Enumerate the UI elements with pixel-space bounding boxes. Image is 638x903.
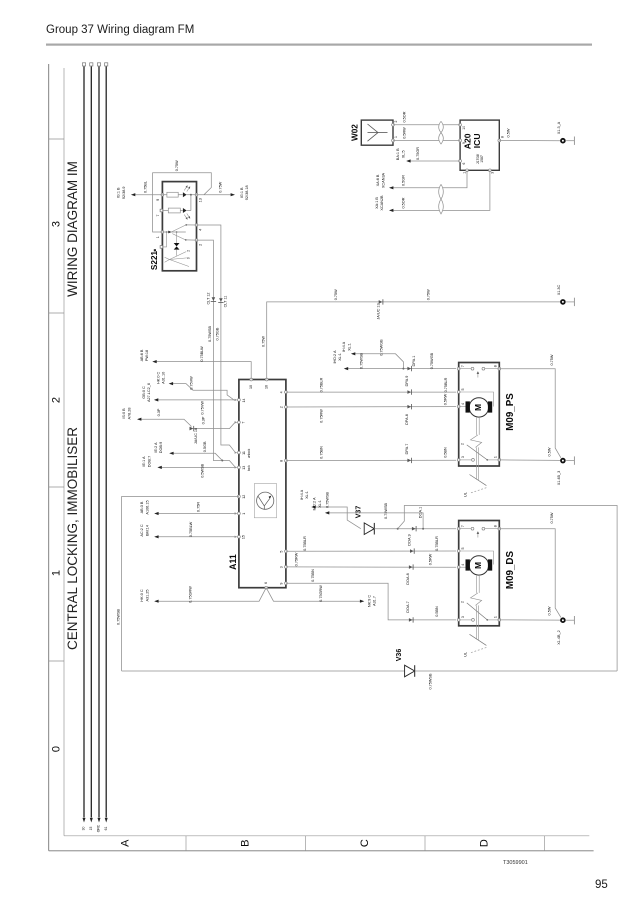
svg-text:0.75BLR: 0.75BLR — [303, 536, 307, 551]
wire S221 pin2 down CLT12 — [197, 240, 235, 467]
S221 pin terminal lower — [160, 246, 163, 249]
svg-text:9: 9 — [156, 199, 160, 201]
A11 pin 13 lock — [238, 466, 241, 469]
svg-text:16: 16 — [265, 385, 269, 389]
wire BA:1B XL:5 to A20 pin6 — [407, 160, 460, 162]
wire W02 pin2 to A20 pin10 — [393, 124, 460, 126]
wire A11 pin4 to M09_PS pin5 via DPA.9 — [286, 391, 456, 393]
svg-text:0.75W: 0.75W — [261, 336, 265, 347]
M09_PS pin 4 — [457, 405, 460, 408]
wire A11 pin1 from AB:3B A106.15 — [155, 513, 236, 515]
bus rail ORC — [98, 66, 100, 817]
svg-text:95: 95 — [595, 879, 608, 891]
wire IHD:2A XL:1 to DPA.1 — [345, 368, 456, 370]
svg-text:8: 8 — [493, 525, 497, 527]
svg-text:DPA.7: DPA.7 — [405, 444, 409, 455]
svg-text:lock: lock — [247, 465, 251, 471]
svg-text:M: M — [473, 562, 483, 569]
M09_PS motor wires — [459, 406, 466, 408]
W02 pin 1 — [392, 139, 395, 142]
svg-text:0.5W: 0.5W — [507, 128, 511, 137]
svg-text:0.5OR: 0.5OR — [403, 111, 407, 122]
frame outer left line — [48, 64, 50, 851]
svg-text:0.3P: 0.3P — [157, 408, 161, 416]
M09_PS linkage below box — [475, 447, 477, 479]
svg-text:1: 1 — [51, 570, 63, 576]
svg-text:2: 2 — [199, 244, 203, 246]
wire V36 to loop corner — [415, 670, 617, 672]
S221 key diode symbol — [176, 231, 178, 233]
svg-text:XL:1: XL:1 — [305, 491, 309, 499]
svg-text:0.75WSB: 0.75WSB — [384, 503, 388, 520]
svg-text:0.5GR: 0.5GR — [402, 175, 406, 186]
wire A11 pin6 split to HK:0C A31.25 — [155, 588, 266, 602]
svg-text:0.5RW: 0.5RW — [403, 127, 407, 139]
svg-text:3: 3 — [461, 616, 465, 618]
svg-text:1: 1 — [462, 172, 466, 174]
M09_PS pin 3 — [457, 459, 460, 462]
svg-text:XL:5: XL:5 — [401, 150, 405, 158]
svg-text:C: C — [359, 839, 371, 847]
A11 pin 16 top — [265, 378, 268, 381]
M09_PS pin 1 — [498, 459, 501, 462]
svg-text:3: 3 — [461, 456, 465, 458]
svg-text:2: 2 — [460, 443, 464, 445]
column divider B/C — [305, 836, 307, 851]
wire M09_PS pin1 to ground — [499, 459, 560, 462]
control unit A20 box — [460, 120, 499, 170]
M09_PS pin 8 — [498, 367, 501, 370]
svg-text:0.75WSB: 0.75WSB — [360, 353, 364, 370]
svg-text:X1.3_A: X1.3_A — [557, 121, 561, 134]
svg-text:Group 37 Wiring diagram FM: Group 37 Wiring diagram FM — [46, 24, 194, 36]
svg-text:BA:1 B: BA:1 B — [396, 148, 400, 160]
frame bottom outer line — [49, 850, 594, 852]
row tick top — [49, 138, 64, 140]
frame inner left line — [63, 68, 65, 836]
twisted pair CAN — [439, 184, 444, 199]
row tick 3/2 — [49, 312, 64, 314]
svg-text:IG:1 B: IG:1 B — [240, 187, 244, 198]
S221 row2 internal wires — [163, 210, 169, 212]
M09_DS motor — [469, 556, 488, 575]
svg-text:0.75GB: 0.75GB — [216, 327, 220, 340]
svg-text:JA/UC 13: JA/UC 13 — [376, 303, 380, 319]
column divider D/end — [544, 836, 546, 851]
svg-text:13: 13 — [242, 466, 246, 470]
A11 pin 6 bottom — [265, 586, 268, 589]
svg-text:0.75W: 0.75W — [218, 181, 222, 192]
wire A11 pin12 to V36 loop — [122, 497, 239, 672]
svg-text:0.75GRW: 0.75GRW — [319, 585, 323, 602]
svg-text:3: 3 — [490, 172, 494, 174]
svg-text:3: 3 — [51, 221, 63, 227]
row tick 1/0 — [49, 660, 64, 662]
svg-text:0.75WGB: 0.75WGB — [430, 352, 434, 369]
A11 pin 5 right — [285, 550, 288, 553]
svg-text:0.75VW: 0.75VW — [190, 376, 194, 390]
header rule — [46, 44, 592, 46]
svg-text:61: 61 — [104, 827, 108, 831]
svg-text:W02: W02 — [350, 124, 359, 141]
svg-text:12: 12 — [242, 495, 246, 499]
S221 pin 4 — [195, 224, 198, 227]
wire A11 pin7 from IS:0B via JA/UC-18 — [138, 419, 236, 428]
svg-text:4: 4 — [461, 403, 465, 405]
svg-text:V36: V36 — [396, 649, 403, 662]
wire A11 pin8 to M09_PS pin3 via DPA.7 — [286, 459, 456, 461]
M09_DS door switch contacts — [459, 528, 471, 530]
svg-text:CLT 12: CLT 12 — [206, 292, 210, 304]
svg-text:0.75BN: 0.75BN — [311, 569, 315, 582]
svg-text:3: 3 — [280, 566, 284, 568]
svg-text:M: M — [473, 404, 483, 411]
svg-text:A: A — [119, 839, 131, 847]
svg-text:DOA.8: DOA.8 — [406, 573, 410, 584]
M09_DS lock switch row — [459, 619, 472, 621]
svg-text:0.75BLW: 0.75BLW — [200, 346, 204, 362]
A20 pin 8 — [498, 139, 501, 142]
svg-text:DOA.9: DOA.9 — [408, 534, 412, 545]
wire A11 pin9 to M09_DS pin3 via DOA.7 — [286, 583, 456, 620]
svg-text:0.75R: 0.75R — [196, 502, 200, 512]
ground X1.4B_2 — [561, 618, 565, 622]
frame bottom strip top line — [64, 835, 589, 837]
svg-text:XL:1: XL:1 — [347, 343, 351, 351]
svg-text:HK:0 C: HK:0 C — [156, 371, 160, 383]
S221 pin 1 — [161, 231, 164, 234]
svg-text:XL:1: XL:1 — [338, 353, 342, 361]
M09_PS lock switch lever — [467, 445, 488, 460]
wire V37 to M09_DS pin7 via DOA.1 — [374, 528, 456, 530]
svg-text:1: 1 — [242, 513, 246, 515]
svg-text:2: 2 — [394, 120, 398, 122]
svg-text:2: 2 — [460, 601, 464, 603]
svg-text:X1.4B_2: X1.4B_2 — [557, 630, 561, 645]
ground X1.3C — [561, 300, 565, 304]
svg-text:0.75WSB: 0.75WSB — [326, 492, 330, 509]
svg-text:2: 2 — [51, 397, 63, 403]
svg-text:0: 0 — [51, 746, 63, 752]
S221 switch wiper — [162, 231, 185, 233]
svg-text:7: 7 — [461, 365, 465, 367]
wire A11 pin14 from HK:0C A31.10 — [170, 384, 237, 400]
svg-text:M09_PS: M09_PS — [505, 393, 516, 431]
svg-text:CLT 11: CLT 11 — [223, 296, 227, 308]
A11 pin 15 — [238, 535, 241, 538]
svg-text:M09_DS: M09_DS — [505, 550, 516, 589]
svg-text:8: 8 — [500, 136, 504, 138]
svg-text:IH:4 A: IH:4 A — [300, 489, 304, 500]
wire S221 pin13 to IG:1B — [197, 194, 233, 196]
svg-text:DOA.1: DOA.1 — [419, 507, 423, 518]
M09_PS motor — [469, 398, 488, 417]
svg-text:DOA.7: DOA.7 — [406, 601, 410, 612]
S221 pin 7 terminal — [160, 209, 163, 212]
svg-text:ICU: ICU — [472, 133, 482, 148]
bus rail 15 — [90, 66, 92, 817]
row tick 2/1 — [49, 486, 64, 488]
bus rail 30 — [83, 66, 85, 817]
svg-text:A31.10: A31.10 — [162, 372, 166, 384]
svg-text:UL: UL — [464, 492, 468, 497]
svg-text:0.5OR: 0.5OR — [402, 197, 406, 208]
svg-text:UL: UL — [464, 652, 468, 657]
svg-text:0.75W: 0.75W — [334, 289, 338, 300]
W02 pin 2 — [392, 123, 395, 126]
A11 pin 10 top — [250, 378, 253, 381]
A11 pin 1 left — [238, 512, 241, 515]
bus rail 61 — [105, 66, 107, 817]
wire W02 pin1 to A20 pin9 — [393, 140, 460, 142]
svg-text:0.75WSB: 0.75WSB — [429, 673, 433, 690]
svg-text:4: 4 — [280, 391, 284, 393]
A11 pin 11 unlock — [238, 451, 241, 454]
svg-text:6: 6 — [264, 582, 268, 584]
M09_DS pin 4 — [457, 566, 460, 569]
svg-text:7: 7 — [461, 525, 465, 527]
svg-text:2: 2 — [187, 250, 191, 252]
svg-text:0.75W: 0.75W — [550, 512, 554, 523]
door lock motor M09_PS box — [459, 363, 500, 467]
svg-text:DPA.1: DPA.1 — [412, 356, 416, 367]
svg-text:XL:1: XL:1 — [318, 500, 322, 508]
svg-text:S221: S221 — [150, 250, 159, 270]
svg-text:A78.28: A78.28 — [127, 407, 131, 419]
M09_PS door switch contacts — [459, 368, 471, 370]
svg-text:DPA.9: DPA.9 — [405, 376, 409, 387]
svg-text:XA:8 B: XA:8 B — [376, 174, 380, 186]
svg-text:AB:8 B: AB:8 B — [140, 349, 144, 361]
svg-text:1587: 1587 — [480, 155, 484, 163]
svg-text:HK:0 C: HK:0 C — [140, 589, 144, 601]
antenna W02 box — [361, 120, 393, 145]
svg-text:0.5RW: 0.5RW — [443, 393, 447, 405]
A20 pin 9 — [459, 139, 462, 142]
svg-text:7: 7 — [156, 214, 160, 216]
svg-text:0.75GR: 0.75GR — [416, 147, 420, 160]
wire S221 loop pin13 to pin1 0.75W — [153, 173, 212, 232]
S221 internal branch to lower terminal — [163, 232, 167, 247]
svg-text:IHD:2 A: IHD:2 A — [313, 497, 317, 511]
svg-text:0.75WSB: 0.75WSB — [116, 609, 120, 626]
svg-text:2: 2 — [280, 406, 284, 408]
wire IHD:2A XL:1 to DOA.1 row — [326, 513, 423, 529]
svg-text:BM:14: BM:14 — [145, 525, 149, 536]
svg-text:B: B — [239, 840, 251, 847]
svg-text:0.75RW: 0.75RW — [320, 409, 324, 423]
svg-text:4: 4 — [461, 564, 465, 566]
M09_DS linkage below box — [475, 605, 477, 639]
svg-text:0.75W: 0.75W — [550, 354, 554, 365]
A11 pin 4 right — [285, 391, 288, 394]
diode V36 — [405, 665, 415, 677]
column divider C/D — [424, 836, 426, 851]
svg-text:0.5BN: 0.5BN — [435, 606, 439, 617]
M09_DS pin 1 — [498, 619, 501, 622]
svg-text:AB:3 B: AB:3 B — [140, 501, 144, 513]
svg-text:92/38.18: 92/38.18 — [245, 185, 249, 200]
svg-text:13: 13 — [199, 198, 203, 202]
S221 lamp resistor row1 — [167, 192, 178, 197]
svg-text:XCAN2B: XCAN2B — [380, 195, 384, 211]
wire S221 pin4 down CLT11 — [197, 225, 235, 452]
A11 pin 8 right — [285, 459, 288, 462]
svg-text:IHD:2 A: IHD:2 A — [333, 350, 337, 364]
M09_DS gear linkage — [476, 575, 478, 593]
svg-text:9: 9 — [280, 583, 284, 585]
svg-text:DOB:9: DOB:9 — [159, 442, 163, 453]
svg-text:0.75BN: 0.75BN — [320, 446, 324, 459]
A11 pin 14 — [238, 399, 241, 402]
diode V37 — [364, 523, 374, 535]
svg-text:15: 15 — [242, 535, 246, 539]
svg-text:0.5W: 0.5W — [548, 447, 552, 456]
switch S221 box — [162, 182, 196, 271]
svg-text:0.75RW: 0.75RW — [294, 552, 298, 566]
svg-text:0.75W: 0.75W — [427, 289, 431, 300]
wire A11 pin13 from IE:2A DOB:9 — [170, 453, 222, 460]
svg-text:JA/UC 18: JA/UC 18 — [194, 428, 198, 444]
wire M09_DS pin1 to ground — [499, 619, 560, 621]
wire S221 pin9 to IG:1B — [133, 194, 162, 196]
ground X1.3_A — [561, 139, 565, 143]
svg-text:IE:1 A: IE:1 A — [142, 456, 146, 467]
svg-text:CENTRAL LOCKING, IMMOBILISER: CENTRAL LOCKING, IMMOBILISER — [65, 427, 80, 650]
svg-text:9: 9 — [462, 142, 466, 144]
wire V36 row from A11 pin12 — [122, 670, 405, 672]
M09_DS lock switch lever — [467, 603, 488, 620]
svg-text:WIRING DIAGRAM IM: WIRING DIAGRAM IM — [65, 161, 80, 297]
svg-text:0.5GB: 0.5GB — [203, 441, 207, 452]
svg-text:V37: V37 — [355, 506, 362, 519]
A11 key symbol — [254, 484, 276, 518]
control unit A11 box — [239, 380, 286, 588]
wire A11 pin3 to M09_DS pin4 via DOA.8 — [286, 566, 456, 568]
svg-text:5: 5 — [280, 551, 284, 553]
M09_PS pin 5 — [457, 391, 460, 394]
M09_DS pin 8 — [498, 527, 501, 530]
svg-text:8: 8 — [280, 460, 284, 462]
svg-text:A106.15: A106.15 — [145, 500, 149, 514]
S221 pin 13 — [195, 193, 198, 196]
door lock motor M09_DS box — [459, 521, 500, 626]
svg-text:8: 8 — [493, 365, 497, 367]
svg-text:D: D — [478, 839, 490, 847]
A11 pin 9 right — [285, 582, 288, 585]
A11 pin 3 right — [285, 566, 288, 569]
column divider A/B — [185, 836, 187, 851]
svg-text:DOB:7: DOB:7 — [147, 456, 151, 467]
svg-text:IE:2 A: IE:2 A — [154, 442, 158, 453]
svg-text:A31.7: A31.7 — [373, 596, 377, 606]
M09_DS pin 5 — [457, 550, 460, 553]
svg-text:30: 30 — [82, 827, 86, 831]
wire A20 pin8 to ground X1.3_A — [499, 140, 560, 142]
wire A11 pin6 split to NK:9C A31.7 — [266, 588, 362, 602]
wire A11 pin16 to ground X1.3C — [267, 302, 561, 380]
svg-text:0.5WSB: 0.5WSB — [200, 463, 204, 477]
svg-text:A27.LC2_6: A27.LC2_6 — [147, 383, 151, 402]
svg-text:1: 1 — [156, 236, 160, 238]
svg-text:0.75BLR: 0.75BLR — [435, 536, 439, 551]
S221 pin 9 — [161, 193, 164, 196]
svg-text:unlock: unlock — [247, 448, 251, 458]
wire A11 pin14 from GB:0C — [155, 399, 237, 401]
svg-text:0.5W: 0.5W — [548, 606, 552, 615]
wire A11 pin15 from AC:2C BM:14 — [155, 536, 236, 538]
wire IH:4A XL:1 to DPA.1 M09_PS pin7 — [352, 354, 403, 369]
svg-text:0.75BLR: 0.75BLR — [444, 377, 448, 392]
A11 pin 2 right — [285, 406, 288, 409]
wire A11 pin10 to AB:8B PW:18 — [153, 362, 251, 380]
svg-text:ORC: ORC — [97, 824, 101, 832]
svg-text:0.5BN: 0.5BN — [443, 447, 447, 458]
svg-text:IH:4 A: IH:4 A — [342, 341, 346, 352]
svg-text:4: 4 — [199, 229, 203, 231]
A11 pin 7 — [238, 421, 241, 424]
svg-text:0.3P: 0.3P — [202, 416, 206, 424]
wire M09_PS pin8 to ground — [499, 369, 561, 458]
svg-text:0.75WSB: 0.75WSB — [208, 326, 212, 343]
svg-text:6: 6 — [462, 163, 466, 165]
A11 pin 12 — [238, 495, 241, 498]
M09_DS motor wires — [459, 566, 466, 568]
wire A20 pin3 to XA:1B XCAN2B — [390, 170, 490, 210]
svg-text:X1.4B_3: X1.4B_3 — [557, 471, 561, 486]
svg-text:AC:2 C: AC:2 C — [140, 524, 144, 536]
svg-text:A11: A11 — [228, 554, 238, 570]
svg-text:0.75BLW: 0.75BLW — [189, 521, 193, 537]
M09_PS gear linkage — [476, 417, 478, 435]
svg-text:0.75WGB: 0.75WGB — [380, 339, 384, 356]
svg-text:7: 7 — [242, 422, 246, 424]
svg-text:15: 15 — [89, 827, 93, 831]
svg-text:NK:9 C: NK:9 C — [367, 595, 371, 607]
svg-text:IG:1 B: IG:1 B — [117, 187, 121, 198]
wire V37 junction to loop — [398, 506, 617, 672]
M09_DS pin 7 — [457, 527, 460, 530]
svg-text:5: 5 — [461, 548, 465, 550]
M09_PS lock switch row — [459, 459, 472, 461]
twisted pair W02-A20 — [439, 121, 444, 132]
ground X1.4B_3 — [561, 459, 565, 463]
svg-text:A31.25: A31.25 — [145, 589, 149, 601]
svg-text:T3059901: T3059901 — [503, 860, 528, 866]
wire M09_DS pin8 to ground — [499, 529, 561, 618]
svg-text:0.75BL: 0.75BL — [144, 181, 148, 193]
svg-text:0.75GRW: 0.75GRW — [189, 586, 193, 603]
A20 pin 6 — [459, 160, 462, 163]
svg-text:11: 11 — [242, 451, 246, 455]
A20 pin 1 bottom — [466, 169, 469, 172]
M09_PS pin 7 — [457, 367, 460, 370]
svg-text:XCAN3A: XCAN3A — [381, 172, 385, 188]
S221 mechanical fan — [170, 252, 187, 260]
svg-text:0: 0 — [187, 257, 191, 259]
M09_DS pin 3 — [457, 619, 460, 622]
svg-text:DPA.8: DPA.8 — [405, 414, 409, 425]
svg-text:5: 5 — [461, 389, 465, 391]
wire A11 pin5 to M09_DS pin5 via DOA.9 — [286, 550, 456, 552]
svg-text:10: 10 — [462, 126, 466, 130]
svg-text:1: 1 — [394, 136, 398, 138]
wire A11 pin13 from IE:1A DOB:7 — [159, 466, 237, 468]
svg-text:IS:0 B: IS:0 B — [122, 408, 126, 419]
S221 lamp resistor row2 — [168, 208, 180, 213]
A20 pin 10 — [459, 123, 462, 126]
svg-text:0.75VW: 0.75VW — [201, 401, 205, 415]
